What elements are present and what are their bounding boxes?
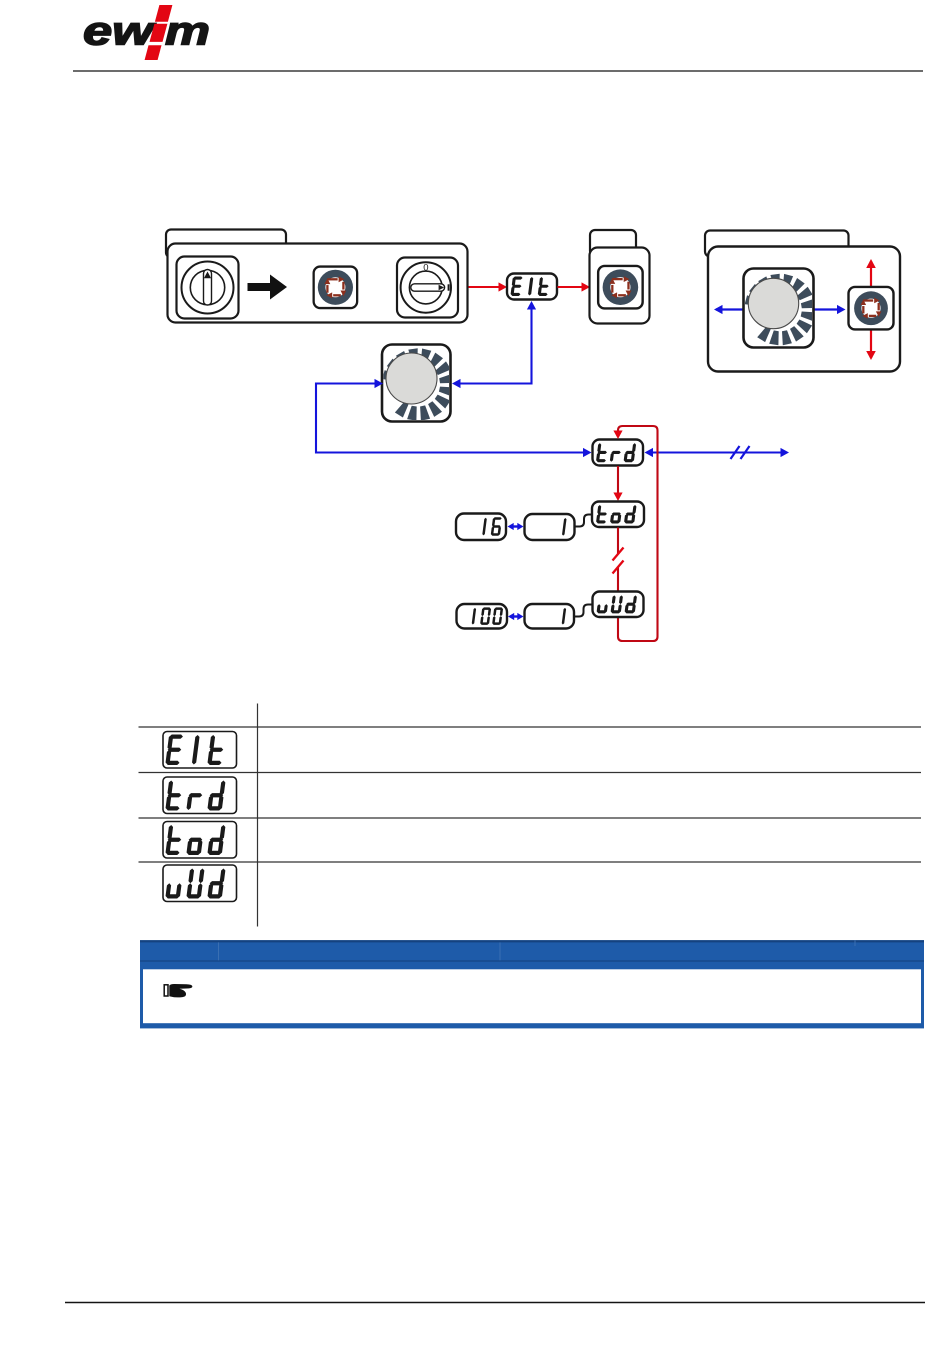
display tod (flow) [592,502,644,528]
display Elt (table) [163,732,237,769]
svg-text:ew: ew [83,10,157,54]
red vertical double arrow [866,259,876,268]
legend hline 1 [139,726,922,728]
note table [140,940,924,1028]
display trd (flow) [593,440,644,466]
blue double arrow 1 [508,523,514,530]
folder3 body [708,247,900,372]
display 100 [457,604,508,629]
blue double arrow 2 [508,613,514,620]
display 1 (tod row) [525,514,575,540]
svg-text:0: 0 [423,263,428,274]
legend hline 2 [139,772,922,774]
svg-text:m: m [165,10,210,54]
wire blue Elt-encoder [527,301,536,310]
display 1 (uUd row) [525,604,575,629]
wire blue trd-right [645,448,654,457]
arrow red Elt-folder [558,286,586,288]
knob key-switch [177,257,239,319]
arrow red trd-tod [617,466,619,496]
legend hline 3 [139,817,922,819]
black arrow [248,275,288,300]
EWM logo [83,5,210,60]
footer rule [65,1302,925,1304]
legend vertical divider [257,704,259,927]
panel1 tab [166,230,286,258]
folder2 tab [590,230,636,256]
display uUd (table) [163,865,237,902]
knob power-switch [397,258,458,318]
arrow red panel1-Elt [469,286,503,288]
display tod (table) [163,822,237,859]
button mode (folder2) [598,266,643,309]
wire blue encoder-trd [375,379,384,388]
display uUd (flow) [593,592,644,618]
display 16 [456,514,506,541]
hand icon [164,984,192,997]
folder3 tab [705,231,849,257]
connector 1-uUd [574,605,592,617]
blue double arrow horizontal [714,305,723,314]
display trd (table) [163,777,237,814]
panel1 body [168,244,468,323]
wire red tod-uUd [617,528,619,555]
header rule [73,70,923,72]
button mode (panel1) [314,267,358,309]
button mode (folder3) [849,287,894,330]
connector 1-tod [575,515,593,527]
wire red loop [618,426,658,641]
display Elt (flow) [507,274,557,300]
folder2 body [590,248,650,324]
legend hline 4 [139,861,922,863]
